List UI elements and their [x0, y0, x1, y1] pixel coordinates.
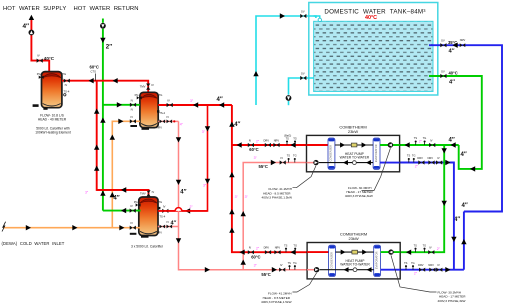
svg-text:TG: TG: [293, 243, 297, 247]
svg-text:CONDENSER: CONDENSER: [329, 145, 333, 162]
arrow right green T2: [117, 102, 122, 107]
svg-text:GV: GV: [441, 70, 445, 74]
valve IV blue HP2: [436, 268, 442, 272]
svg-text:60°C: 60°C: [90, 64, 99, 69]
pipe right header vertical: [232, 105, 307, 252]
pipe blue return HP2: [400, 269, 464, 271]
pipe hot water return riser: [102, 19, 104, 23]
arrow up T3feed a: [94, 109, 99, 114]
pump P-HWR: [100, 23, 106, 29]
arrow up cold riser a: [110, 135, 115, 140]
pipe blue return HP1: [400, 163, 454, 270]
exchanger evaporator HP2: [374, 245, 381, 276]
svg-text:GV: GV: [301, 72, 305, 76]
svg-text:400V,3 PHASE,3kW: 400V,3 PHASE,3kW: [438, 299, 466, 303]
pipe red inlet HP1: [307, 144, 329, 146]
valve DI T2 bottom: [160, 120, 166, 124]
sensor TG blue HP2: [412, 267, 414, 270]
svg-text:400V,3 PHASE,3kW: 400V,3 PHASE,3kW: [345, 194, 373, 198]
svg-text:EVAPORATOR: EVAPORATOR: [374, 251, 378, 269]
svg-text:IV: IV: [131, 98, 134, 102]
svg-text:60°C: 60°C: [249, 147, 258, 152]
valve IV T3 outlet: [162, 209, 168, 213]
valve IV green HP2: [428, 250, 434, 254]
svg-text:EVAPORATOR: EVAPORATOR: [374, 144, 378, 162]
valve NRV 60C HP1: [273, 143, 279, 147]
svg-text:NRV: NRV: [274, 138, 280, 142]
valve IV 60C HP2: [248, 250, 254, 254]
pipe 40C tank outlet: [429, 76, 482, 169]
svg-text:TS: TS: [288, 261, 292, 265]
heat pump unit HP1: [307, 135, 400, 171]
valve IV 55C HP1: [280, 160, 286, 164]
valve NRV 35C: [460, 43, 466, 47]
sensor TS 55C HP2: [289, 267, 291, 270]
svg-text:DRV: DRV: [264, 246, 270, 250]
pipe T2 bottom outlet: [158, 120, 178, 122]
svg-text:23kW: 23kW: [348, 129, 358, 134]
heat pump unit HP2: [307, 243, 400, 279]
leader HP2 left pump: [293, 273, 317, 292]
svg-text:TG: TG: [411, 261, 415, 265]
svg-text:IV: IV: [167, 220, 170, 224]
svg-text:GV: GV: [441, 39, 445, 43]
svg-text:IV: IV: [130, 221, 133, 225]
expansion vessel HP2: [353, 268, 357, 272]
crossover hop T3 outlet: [175, 208, 182, 211]
drain stub T1: [33, 104, 39, 107]
svg-text:IV: IV: [163, 204, 166, 208]
valve NRV blue HP1: [428, 160, 434, 164]
arrow up cold riser b: [110, 192, 115, 197]
domestic water tank: [309, 3, 438, 96]
pipe red inlet HP2: [307, 251, 329, 253]
arrow up green mid: [100, 118, 105, 123]
svg-text:TG: TG: [412, 154, 416, 158]
sensor TG green HP1: [424, 142, 426, 145]
sensor TS blue HP1: [408, 160, 410, 163]
arrow left 60C HP1: [237, 142, 242, 147]
pump circulation right HP2: [388, 249, 393, 254]
svg-text:NRV: NRV: [157, 125, 163, 129]
pipe upper middle HP2: [336, 251, 374, 253]
sensor TS BaG HP1: [286, 142, 288, 145]
valve IV T2 bottom: [167, 120, 173, 124]
pump circulation left HP1: [313, 160, 318, 165]
svg-text:100kW Heating Element: 100kW Heating Element: [35, 131, 71, 135]
valve IV T2 outlet: [167, 103, 173, 107]
svg-text:IV: IV: [151, 83, 154, 87]
svg-text:HOT WATER SUPPLY: HOT WATER SUPPLY: [3, 6, 66, 12]
valve DRV blue HP2: [419, 268, 425, 272]
valve TMV T3: [146, 190, 150, 196]
arrow left T3 outlet: [185, 208, 190, 213]
svg-text:TG: TG: [62, 72, 66, 76]
svg-text:TG: TG: [159, 93, 163, 97]
calorifier tank T1: [42, 72, 62, 108]
pipe blue inside HP1: [380, 162, 400, 164]
svg-text:NRV: NRV: [428, 263, 434, 267]
pipe upper middle HP1: [335, 144, 373, 146]
valve IV cold T3: [130, 226, 136, 230]
arrow down return: [100, 38, 105, 43]
sensor TS 60C HP2: [285, 250, 287, 253]
valve NRV 60C HP2: [274, 250, 280, 254]
valve IV supply: [37, 59, 43, 63]
filter HP2: [352, 250, 358, 254]
arrow down mid drop: [205, 126, 210, 131]
arrow up riser: [29, 15, 34, 20]
pump P-HWS: [29, 30, 35, 36]
svg-text:TS-4: TS-4: [64, 89, 70, 93]
exchanger condenser HP1: [328, 138, 335, 169]
arrow down blue HP1 drop: [451, 237, 456, 242]
arrow right blue HP2: [445, 267, 450, 272]
arrow up right header d: [229, 228, 234, 233]
arrow down mid drop b: [205, 179, 210, 184]
svg-text:TG: TG: [158, 200, 162, 204]
sensor TS 55C HP1: [288, 160, 290, 163]
pipe 60C to HP1: [232, 144, 307, 146]
svg-text:NRV: NRV: [157, 230, 163, 234]
svg-text:TS: TS: [414, 136, 418, 140]
svg-text:IV: IV: [130, 204, 133, 208]
svg-text:TS-4: TS-4: [159, 111, 165, 115]
valve GV tank outlet: [300, 76, 306, 80]
valve GV 40C: [440, 74, 446, 78]
svg-text:IV: IV: [131, 115, 134, 119]
pipe blue inside HP2: [381, 269, 401, 271]
svg-text:NRV: NRV: [275, 246, 281, 250]
svg-text:CTS: CTS: [91, 70, 97, 74]
sensor TG 60C HP2: [294, 250, 296, 253]
pipe lower middle HP1: [319, 162, 373, 164]
leader HP1 right pump: [362, 148, 391, 190]
svg-text:23kW: 23kW: [348, 236, 358, 241]
pipe pink inlet HP1: [307, 162, 314, 164]
svg-text:DRV: DRV: [264, 138, 270, 142]
arrow left header a: [89, 78, 94, 83]
pipe T3 feed restroke: [97, 189, 149, 191]
leader HP1 left pump: [293, 166, 317, 188]
svg-text:TG: TG: [293, 154, 297, 158]
arrow left green HP2: [406, 250, 411, 255]
svg-text:TS: TS: [286, 137, 290, 141]
pump circulation left HP2: [314, 267, 319, 272]
valve IV green T2: [130, 103, 136, 107]
svg-text:IV: IV: [430, 138, 433, 142]
svg-text:4″: 4″: [113, 196, 119, 202]
pipe cold water inlet: [3, 227, 141, 229]
pipe return branch T2: [103, 104, 140, 106]
arrow right cold a: [26, 225, 31, 230]
pipe green inside HP1: [380, 144, 400, 146]
valve IV green HP1: [429, 143, 435, 147]
svg-text:4″: 4″: [461, 152, 467, 158]
pipe tank overflow top: [256, 16, 316, 105]
valve DRV blue HP1: [418, 160, 424, 164]
float valve: [314, 16, 320, 18]
arrow down green branch a: [442, 148, 447, 153]
valve DRV 60C HP1: [265, 143, 271, 147]
valve IV 55C HP2: [279, 268, 285, 272]
pipe T3 bottom outlet: [158, 226, 179, 228]
arrow left green T3: [121, 208, 126, 213]
sensor TG 55C HP2: [294, 267, 296, 270]
valve IV green T3: [130, 209, 136, 213]
svg-text:CONDENSER: CONDENSER: [329, 252, 333, 269]
arrow right upper b HP2: [362, 250, 367, 255]
svg-text:IV: IV: [249, 138, 252, 142]
svg-text:TG: TG: [293, 261, 297, 265]
sensor TG blue HP1: [413, 160, 415, 163]
svg-text:IV: IV: [37, 54, 40, 58]
svg-text:TS: TS: [284, 243, 288, 247]
pipe T3 outlet restroke: [158, 210, 175, 212]
svg-text:IV: IV: [429, 246, 432, 250]
svg-text:WATER TO-WATER: WATER TO-WATER: [340, 156, 370, 160]
pipe blue riser from HPs: [463, 212, 465, 270]
arrow up T3feed c: [94, 166, 99, 171]
arrow left header b: [113, 78, 118, 83]
pipe lower middle HP2: [320, 269, 374, 271]
pipe return drop: [102, 29, 104, 211]
pipe green branch HP2: [400, 145, 445, 252]
exchanger evaporator HP1: [373, 138, 380, 169]
svg-text:NRV: NRV: [428, 156, 434, 160]
leader HP2 right pump: [391, 255, 437, 292]
valve TMV T2: [146, 84, 150, 90]
valve IV T3 bottom: [167, 225, 173, 229]
arrow down pink drop mid: [176, 180, 181, 185]
svg-text:HOT WATER RETURN: HOT WATER RETURN: [74, 6, 139, 12]
arrow right upper a HP1: [340, 142, 345, 147]
arrow up pink riser a: [241, 211, 246, 216]
arrow right blue HP1: [445, 160, 450, 165]
svg-text:40°C: 40°C: [44, 56, 55, 61]
arrow up blue riser: [461, 239, 466, 244]
arrow left T2 outlet b: [219, 102, 224, 107]
arrow right upper a HP2: [341, 250, 346, 255]
arrow left T3feed: [121, 187, 126, 192]
svg-text:2″: 2″: [106, 44, 112, 51]
arrow right cold b: [72, 225, 77, 230]
arrow down pink drop b: [176, 238, 181, 243]
arrow left 60C HP1 b: [291, 142, 296, 147]
svg-text:4″: 4″: [462, 203, 468, 209]
arrow down green branch b: [442, 201, 447, 206]
valve IV blue HP1: [436, 160, 442, 164]
arrow right upper b HP1: [362, 142, 367, 147]
arrow left green HP1 a: [405, 142, 410, 147]
calorifier tank T3: [139, 197, 158, 236]
pipe return branch T3: [103, 210, 141, 212]
svg-text:TMV: TMV: [140, 85, 146, 89]
svg-text:4″: 4″: [449, 49, 455, 55]
arrow left lower a HP1: [343, 160, 348, 165]
svg-text:IV: IV: [167, 99, 170, 103]
svg-text:4″: 4″: [454, 217, 460, 223]
pipe cold riser to T2: [112, 121, 140, 227]
svg-text:4″: 4″: [23, 23, 30, 30]
arrow left lower b HP2: [367, 267, 372, 272]
svg-text:4″: 4″: [449, 80, 455, 86]
arrow right cold c: [119, 225, 124, 230]
pipe mid drop: [158, 105, 208, 211]
svg-text:4″: 4″: [234, 122, 240, 128]
svg-text:400V,3 PHASE,1.5kW: 400V,3 PHASE,1.5kW: [262, 196, 293, 200]
svg-text:4″: 4″: [180, 190, 186, 196]
sensor TG green HP2: [424, 250, 426, 253]
valve IV cold T2: [130, 119, 136, 123]
pipe hot water supply riser: [31, 17, 49, 72]
svg-text:4″: 4″: [171, 221, 177, 227]
svg-text:TMV: TMV: [140, 192, 146, 196]
arrow left 60C HP2 b: [291, 250, 296, 255]
svg-text:TG: TG: [423, 136, 427, 140]
svg-text:IV: IV: [437, 156, 440, 160]
pipe 35C tank inlet: [429, 45, 502, 211]
arrow left T2 outlet a: [193, 102, 198, 107]
expansion vessel HP1: [353, 161, 357, 165]
pipe pink drop x178: [179, 121, 308, 269]
svg-text:40°C: 40°C: [365, 15, 377, 21]
pipe tank outlet left: [289, 78, 314, 95]
arrow up right header c: [229, 209, 234, 214]
calorifier tank T2: [140, 92, 158, 127]
svg-text:40°C: 40°C: [449, 71, 458, 76]
svg-text:IV: IV: [281, 156, 284, 160]
arrow left 35C: [453, 43, 458, 48]
valve NRV blue HP2: [429, 268, 435, 272]
arrow right 55C HP1: [271, 160, 276, 165]
arrow down pink drop a: [176, 137, 181, 142]
svg-text:WATER TO-WATER: WATER TO-WATER: [340, 263, 370, 267]
svg-text:IV: IV: [167, 115, 170, 119]
sensor TS green HP2: [415, 250, 417, 253]
svg-text:400V,3 PHASE,1.5kW: 400V,3 PHASE,1.5kW: [261, 300, 292, 304]
valve IV T1 outlet: [64, 79, 70, 83]
arrow up T3feed b: [94, 145, 99, 150]
arrow up right header a: [229, 122, 234, 127]
svg-text:TS: TS: [404, 261, 408, 265]
drain stub T3: [130, 233, 137, 235]
svg-text:IV: IV: [65, 83, 68, 87]
svg-text:DRV: DRV: [418, 263, 424, 267]
break symbol inlet: [2, 222, 6, 232]
arrow right cold T2: [118, 119, 123, 124]
arrow up green low: [100, 191, 105, 196]
arrow left green HP1 b: [451, 142, 456, 147]
arrow left 60C HP2: [240, 250, 245, 255]
pipe pink riser to HP1: [243, 163, 307, 270]
sensor TG 55C HP1: [294, 160, 296, 163]
svg-text:PG: PG: [135, 93, 139, 97]
arrow up overflow: [253, 71, 258, 76]
svg-text:HEAD - 40 METER: HEAD - 40 METER: [38, 118, 67, 122]
arrow left 40C lower: [470, 166, 475, 171]
valve GV 35C: [440, 43, 446, 47]
svg-text:TS: TS: [407, 154, 411, 158]
svg-text:4″: 4″: [449, 137, 455, 143]
svg-text:60°C: 60°C: [251, 254, 260, 259]
pipe T2 outlet: [158, 104, 232, 106]
svg-text:IV: IV: [280, 263, 283, 267]
svg-text:GV: GV: [301, 10, 305, 14]
drain stub T2: [130, 125, 137, 127]
svg-text:TG: TG: [293, 137, 297, 141]
svg-text:55°C: 55°C: [261, 272, 270, 277]
pipe main hot header: [62, 81, 148, 93]
svg-text:NRV: NRV: [460, 38, 466, 42]
svg-text:IV: IV: [131, 108, 134, 112]
valve GV overflow: [300, 14, 306, 18]
arrow up right header b: [229, 172, 234, 177]
arrow right 55C HP2: [272, 267, 277, 272]
valve DI T3 bottom: [160, 225, 166, 229]
sensor TS blue HP2: [405, 267, 407, 270]
svg-text:4″: 4″: [217, 97, 223, 103]
pipe pink inlet HP2: [307, 269, 314, 271]
svg-text:TS-4: TS-4: [159, 215, 165, 219]
svg-text:TS: TS: [414, 243, 418, 247]
pipe green supply HP1: [400, 144, 459, 146]
svg-text:3 x 5000 Lit. Calorifier: 3 x 5000 Lit. Calorifier: [131, 245, 164, 249]
pump tank outlet: [286, 95, 292, 101]
pump circulation right HP1: [388, 142, 393, 147]
svg-text:(DEWA) COLD WATER INLET: (DEWA) COLD WATER INLET: [2, 241, 65, 246]
arrow left lower a HP2: [344, 267, 349, 272]
valve DRV 60C HP2: [265, 250, 271, 254]
svg-text:TS: TS: [287, 154, 291, 158]
svg-text:IV: IV: [437, 263, 440, 267]
arrow right pink bottom: [205, 267, 210, 272]
filter HP1: [351, 143, 357, 147]
svg-text:IV: IV: [152, 190, 155, 194]
svg-text:IV: IV: [249, 246, 252, 250]
exchanger condenser HP2: [329, 245, 336, 276]
pipe green inside HP2: [381, 251, 401, 253]
sensor TS green HP1: [415, 142, 417, 145]
valve IV 60C HP1: [248, 143, 254, 147]
svg-text:DRV: DRV: [417, 156, 423, 160]
arrow up pink riser b: [241, 260, 246, 265]
svg-text:55°C: 55°C: [259, 164, 268, 169]
arrow right overflow: [280, 13, 285, 18]
svg-text:TG: TG: [423, 243, 427, 247]
sensor TG 60C HP1: [294, 142, 296, 145]
pipe T3 feed drop: [97, 81, 149, 197]
arrow left lower b HP1: [366, 160, 371, 165]
